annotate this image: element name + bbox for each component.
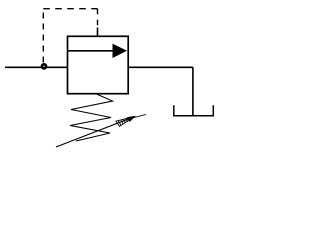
wire outlet vertical to tank — [192, 67, 194, 116]
flow arrow head — [113, 44, 128, 58]
valve body square — [68, 36, 129, 93]
arrow tip line — [131, 115, 147, 119]
pilot line (dashed) right vertical — [97, 9, 99, 28]
junction node — [41, 63, 48, 70]
spring (zigzag) — [70, 94, 113, 141]
flow arrow shaft — [68, 50, 115, 52]
pilot stub to valve top — [97, 28, 99, 37]
adjustment arrow shaft — [56, 117, 134, 147]
adjustment arrow hatched head — [116, 115, 146, 127]
pilot line (dashed) top horizontal — [43, 8, 97, 10]
tank symbol — [174, 105, 214, 115]
wire inlet P — [5, 66, 68, 68]
pilot line (dashed) left vertical — [42, 9, 44, 64]
wire outlet horizontal — [128, 66, 193, 68]
